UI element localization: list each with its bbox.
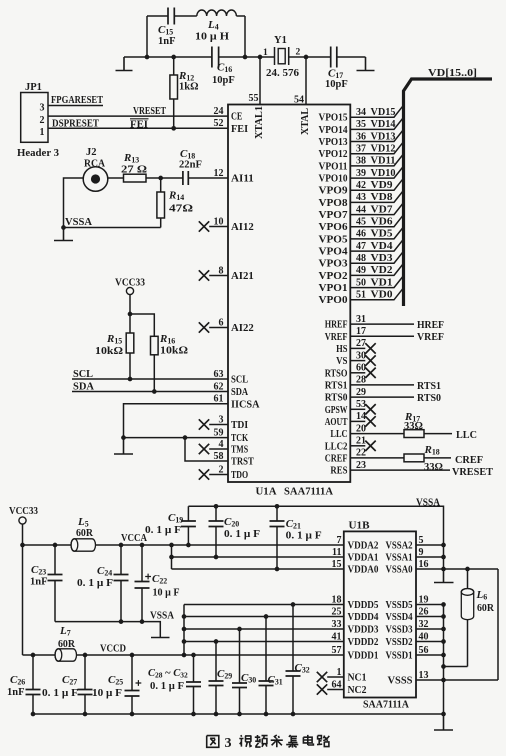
svg-text:32: 32 bbox=[419, 619, 429, 630]
wire VDDD3 (pin 33 rail) bbox=[184, 628, 344, 630]
wire VSSD5 (pin19) bbox=[416, 604, 444, 606]
svg-text:VSSA2: VSSA2 bbox=[386, 541, 413, 552]
svg-text:24: 24 bbox=[214, 106, 224, 117]
capacitor C17 bbox=[325, 47, 348, 91]
svg-text:3: 3 bbox=[40, 103, 45, 114]
junction (C32 bottom on gnd rail) bbox=[291, 712, 296, 717]
svg-text:10pF: 10pF bbox=[325, 79, 348, 90]
wire HREF bbox=[350, 320, 444, 331]
U1B right pin numbers bbox=[419, 535, 429, 681]
svg-text:VRESET: VRESET bbox=[452, 466, 494, 478]
svg-text:VSSA0: VSSA0 bbox=[386, 565, 413, 576]
svg-text:1nF: 1nF bbox=[158, 36, 176, 47]
svg-text:7: 7 bbox=[337, 535, 342, 546]
svg-text:VCCA: VCCA bbox=[121, 533, 147, 544]
svg-text:RTS1: RTS1 bbox=[417, 381, 441, 392]
svg-text:VDDD3: VDDD3 bbox=[348, 625, 379, 636]
IC U1A SAA7111A (body) bbox=[228, 105, 350, 483]
svg-text:10kΩ: 10kΩ bbox=[160, 346, 188, 357]
connector JP1 bbox=[17, 82, 59, 159]
wire VPO15-VPO0 stubs to VD bus bbox=[350, 105, 403, 300]
wire (L6 bottom to VSS trunk) bbox=[444, 666, 468, 668]
svg-text:VPO15: VPO15 bbox=[319, 113, 348, 124]
junction (C21 top) bbox=[275, 504, 280, 509]
junction (C31 top) bbox=[264, 614, 269, 619]
junction (C27 tap) bbox=[83, 653, 88, 658]
junction (C25 bottom on gnd rail) bbox=[130, 712, 135, 717]
svg-text:TCK: TCK bbox=[231, 433, 249, 444]
svg-text:55: 55 bbox=[249, 93, 259, 104]
svg-text:VPO5: VPO5 bbox=[319, 234, 348, 245]
wire VDDD4 (pin 25 rail) bbox=[184, 616, 344, 618]
wire (VDDD trunk vertical) bbox=[183, 605, 185, 656]
svg-text:VPO7: VPO7 bbox=[319, 210, 348, 221]
svg-text:VPO4: VPO4 bbox=[319, 247, 349, 258]
wire (right edge vertical VSSA0-VSSS) bbox=[497, 569, 499, 680]
svg-text:53: 53 bbox=[356, 399, 366, 410]
connector J2 RCA bbox=[83, 147, 108, 191]
svg-text:VPO3: VPO3 bbox=[319, 259, 348, 270]
svg-text:FPGARESET: FPGARESET bbox=[51, 95, 103, 106]
junction (R13/C18/R14 node) bbox=[158, 176, 163, 181]
svg-text:58: 58 bbox=[214, 451, 224, 462]
ground (digital, bottom right) bbox=[434, 714, 453, 730]
svg-text:VSSD4: VSSD4 bbox=[386, 612, 414, 623]
junction (C29 top) bbox=[214, 639, 219, 644]
svg-text:13: 13 bbox=[419, 670, 429, 681]
svg-text:64: 64 bbox=[332, 679, 342, 690]
junction (C24 tap) bbox=[119, 543, 124, 548]
wire (pin 54 XTAL stub) bbox=[305, 57, 307, 105]
wire TRST (branch to pin58) bbox=[185, 438, 228, 461]
junction (R16 on SDA) bbox=[152, 389, 157, 394]
svg-text:3: 3 bbox=[219, 414, 224, 425]
capacitor C29 bbox=[209, 642, 233, 715]
svg-text:51: 51 bbox=[356, 290, 366, 301]
svg-text:JP1: JP1 bbox=[25, 82, 42, 93]
svg-text:RES: RES bbox=[330, 466, 347, 477]
U1B left pin numbers bbox=[332, 535, 342, 691]
svg-text:29: 29 bbox=[356, 387, 366, 398]
svg-text:Header 3: Header 3 bbox=[17, 147, 59, 159]
crystal Y1 bbox=[263, 35, 301, 79]
svg-text:37: 37 bbox=[356, 144, 366, 155]
wire (VCC33 to L5) bbox=[23, 544, 72, 546]
wire (C15/L4 branch verticals) bbox=[147, 16, 245, 57]
svg-text:0. 1 μ F: 0. 1 μ F bbox=[42, 688, 78, 699]
svg-text:C28 ~ C32: C28 ~ C32 bbox=[148, 668, 188, 680]
svg-text:28: 28 bbox=[356, 375, 366, 386]
capacitor C19 bbox=[145, 506, 196, 545]
junction (C32 top) bbox=[291, 602, 296, 607]
svg-text:VDDA0: VDDA0 bbox=[348, 565, 379, 576]
svg-text:48: 48 bbox=[356, 253, 366, 264]
junction (TCK/TRST branch) bbox=[183, 435, 188, 440]
svg-text:47Ω: 47Ω bbox=[169, 204, 193, 215]
svg-text:CREF: CREF bbox=[325, 454, 348, 465]
svg-text:9: 9 bbox=[419, 547, 424, 558]
svg-text:NC2: NC2 bbox=[348, 685, 367, 696]
svg-text:22: 22 bbox=[356, 448, 366, 459]
junction (C20 top) bbox=[214, 504, 219, 509]
svg-text:10pF: 10pF bbox=[212, 75, 235, 86]
svg-text:2: 2 bbox=[40, 115, 45, 126]
svg-text:U1B: U1B bbox=[349, 520, 371, 532]
node VD[15..0] bus bbox=[404, 67, 493, 306]
wire VSSD1 (pin56) bbox=[416, 654, 444, 656]
svg-text:RTSO: RTSO bbox=[325, 368, 348, 379]
svg-text:VDDA1: VDDA1 bbox=[348, 553, 379, 564]
svg-text:VD11: VD11 bbox=[371, 156, 396, 167]
junction (VDDA tie top) bbox=[169, 543, 174, 548]
junction (trunk at VSSA2) bbox=[441, 543, 446, 548]
resistor R18 (CREF series) bbox=[350, 444, 483, 473]
resistor R13 bbox=[121, 152, 161, 182]
svg-text:35: 35 bbox=[356, 119, 366, 130]
wire DSPRESET/FEI (JP1 pin1 to U1A FEI pin52) bbox=[48, 119, 228, 131]
svg-text:42: 42 bbox=[356, 180, 366, 191]
svg-text:56: 56 bbox=[419, 645, 429, 656]
junction (IICSA/TCK/gnd) bbox=[121, 435, 126, 440]
junction (tie at VDDA1) bbox=[169, 555, 174, 560]
inductor L4 bbox=[195, 10, 236, 43]
svg-text:60: 60 bbox=[356, 363, 366, 374]
inductor L5 (ferrite bead 60R) bbox=[71, 516, 96, 551]
U1A XTAL pin name (vertical) bbox=[300, 108, 311, 135]
svg-text:43: 43 bbox=[356, 192, 366, 203]
svg-text:VDDD1: VDDD1 bbox=[348, 651, 379, 662]
junction (trunk at VDDD2 rail) bbox=[182, 639, 187, 644]
svg-text:1: 1 bbox=[40, 127, 45, 138]
svg-text:VSSA1: VSSA1 bbox=[386, 553, 413, 564]
svg-text:0. 1 μ F: 0. 1 μ F bbox=[286, 531, 322, 542]
pin NC1 (no-connect) bbox=[317, 672, 344, 682]
svg-text:TDI: TDI bbox=[231, 420, 248, 431]
resistor R15 bbox=[95, 314, 134, 379]
svg-text:1nF: 1nF bbox=[7, 687, 25, 698]
capacitor C25 (polarized) bbox=[92, 655, 141, 714]
svg-text:VDDD2: VDDD2 bbox=[348, 637, 379, 648]
resistor R16 bbox=[130, 314, 188, 392]
junction (branch-right on main wire) bbox=[243, 55, 248, 60]
svg-text:VDDD4: VDDD4 bbox=[348, 612, 380, 623]
svg-text:62: 62 bbox=[214, 381, 224, 392]
junction (C23 tap) bbox=[53, 543, 58, 548]
wire VCCA (L5 to U1A... U1B VDDA2 pin7) bbox=[96, 533, 345, 545]
wire RTS0 bbox=[350, 393, 441, 404]
svg-text:6: 6 bbox=[219, 317, 224, 328]
svg-text:CE: CE bbox=[231, 112, 242, 123]
wire IICSA (pin61 to ground bracket) bbox=[124, 404, 229, 438]
svg-text:VPO1: VPO1 bbox=[319, 283, 348, 294]
svg-text:VCCD: VCCD bbox=[100, 644, 126, 655]
svg-text:VD3: VD3 bbox=[371, 253, 393, 264]
svg-text:0. 1 μ F: 0. 1 μ F bbox=[150, 681, 184, 692]
wire VSSA0 (pin16 to right edge) bbox=[416, 568, 498, 570]
svg-text:VREF: VREF bbox=[417, 332, 444, 343]
svg-text:44: 44 bbox=[356, 204, 366, 215]
svg-text:38: 38 bbox=[356, 156, 366, 167]
junction (gnd rail at VSS trunk) bbox=[441, 712, 446, 717]
svg-text:33: 33 bbox=[332, 619, 342, 630]
svg-text:Y1: Y1 bbox=[274, 35, 287, 46]
svg-text:LLC2: LLC2 bbox=[325, 441, 348, 452]
junction (C27 bottom on gnd rail) bbox=[83, 712, 88, 717]
svg-text:25: 25 bbox=[332, 606, 342, 617]
svg-text:SDA: SDA bbox=[231, 387, 248, 398]
junction (C20 bottom) bbox=[214, 555, 219, 560]
wire (main top net, y=57) bbox=[124, 56, 366, 58]
svg-text:VSSD2: VSSD2 bbox=[386, 637, 413, 648]
svg-text:23: 23 bbox=[356, 460, 366, 471]
svg-text:VPO12: VPO12 bbox=[319, 149, 348, 160]
svg-text:TMS: TMS bbox=[231, 445, 248, 456]
junction (R15 on SCL) bbox=[128, 377, 133, 382]
svg-text:VSSD3: VSSD3 bbox=[386, 625, 413, 636]
svg-text:AI11: AI11 bbox=[231, 174, 254, 185]
svg-text:VD7: VD7 bbox=[371, 204, 393, 215]
junction (trunk at VSSA0) bbox=[441, 567, 446, 572]
U1B designator label bbox=[349, 520, 371, 532]
svg-text:VD12: VD12 bbox=[371, 144, 396, 155]
wire RTS1 bbox=[350, 381, 441, 392]
wire SDA bbox=[72, 382, 228, 393]
pin TDI (no-connect) bbox=[199, 419, 228, 429]
U1A left pin names bbox=[231, 112, 260, 481]
junction (trunk at VSSD1) bbox=[441, 653, 446, 658]
junction (branch-left on main wire) bbox=[145, 55, 150, 60]
wire (RCA to R13) bbox=[108, 177, 124, 179]
svg-text:60R: 60R bbox=[76, 528, 93, 539]
svg-text:VPO10: VPO10 bbox=[319, 174, 348, 185]
svg-text:VPO2: VPO2 bbox=[319, 271, 348, 282]
svg-text:16: 16 bbox=[419, 559, 429, 570]
capacitor C16 bbox=[212, 47, 235, 87]
svg-text:VPO6: VPO6 bbox=[319, 222, 348, 233]
svg-text:VS: VS bbox=[336, 356, 348, 367]
junction (L6 top tap) bbox=[465, 567, 470, 572]
svg-text:IICSA: IICSA bbox=[231, 399, 260, 410]
svg-text:36: 36 bbox=[356, 131, 366, 142]
capacitor C30 bbox=[232, 629, 256, 714]
svg-text:FEI: FEI bbox=[130, 119, 148, 130]
resistor R12 bbox=[170, 57, 199, 128]
svg-text:46: 46 bbox=[356, 229, 366, 240]
svg-text:50: 50 bbox=[356, 277, 366, 288]
svg-text:3: 3 bbox=[225, 736, 232, 751]
svg-text:DSPRESET: DSPRESET bbox=[52, 119, 99, 130]
U1B left pin names bbox=[348, 541, 380, 697]
ground (JTAG/IICSA) bbox=[114, 438, 133, 454]
svg-text:45: 45 bbox=[356, 217, 366, 228]
svg-text:SDA: SDA bbox=[73, 382, 94, 393]
svg-text:26: 26 bbox=[419, 606, 429, 617]
svg-text:VSSA: VSSA bbox=[416, 498, 440, 509]
svg-text:40: 40 bbox=[419, 631, 429, 642]
svg-text:63: 63 bbox=[214, 369, 224, 380]
U1A VPO pin names and VD net labels bbox=[319, 107, 397, 306]
resistor R14 bbox=[157, 178, 193, 228]
svg-text:11: 11 bbox=[332, 547, 341, 558]
inductor L6 (ferrite bead 60R) bbox=[461, 569, 494, 667]
junction (C29 bottom on gnd rail) bbox=[214, 712, 219, 717]
U1A right pin names bbox=[325, 320, 348, 477]
svg-text:SAA7111A: SAA7111A bbox=[363, 699, 409, 711]
svg-text:14: 14 bbox=[356, 411, 366, 422]
svg-text:60R: 60R bbox=[477, 603, 494, 614]
svg-text:VD6: VD6 bbox=[371, 217, 393, 228]
wire TCK (ground bracket to pin59) bbox=[124, 437, 229, 439]
pin VS (no-connect) bbox=[350, 355, 375, 365]
capacitor C32 bbox=[286, 605, 310, 715]
svg-text:VPO13: VPO13 bbox=[319, 137, 348, 148]
capacitor C27 bbox=[42, 655, 93, 714]
svg-text:RTS0: RTS0 bbox=[325, 393, 348, 404]
U1B part number label bbox=[363, 699, 409, 711]
svg-text:22nF: 22nF bbox=[179, 160, 202, 171]
capacitor C21 bbox=[270, 506, 322, 569]
junction (trunk at VSSD3) bbox=[441, 627, 446, 632]
svg-text:12: 12 bbox=[214, 168, 224, 179]
svg-text:VPO14: VPO14 bbox=[319, 125, 349, 136]
wire (VSSA top rail) bbox=[188, 506, 443, 569]
svg-text:10kΩ: 10kΩ bbox=[95, 346, 123, 357]
svg-text:TRST: TRST bbox=[231, 457, 254, 468]
svg-text:49: 49 bbox=[356, 265, 366, 276]
svg-text:20: 20 bbox=[356, 423, 366, 434]
svg-text:61: 61 bbox=[214, 394, 224, 405]
svg-text:VPO8: VPO8 bbox=[319, 198, 348, 209]
svg-text:VRESET: VRESET bbox=[133, 106, 166, 117]
wire VRESET (RES pin23) bbox=[350, 466, 493, 478]
junction (VDDD trunk bottom) bbox=[182, 653, 187, 658]
junction (C30 top) bbox=[237, 627, 242, 632]
svg-text:VD15: VD15 bbox=[371, 107, 396, 118]
svg-text:60R: 60R bbox=[58, 639, 75, 650]
pin TMS (no-connect) bbox=[199, 444, 228, 454]
svg-text:10: 10 bbox=[214, 216, 224, 227]
wire VDDA0 (to pin 15) bbox=[172, 568, 345, 570]
svg-text:VSSA: VSSA bbox=[150, 611, 174, 622]
ground (J2 shield) bbox=[54, 228, 73, 241]
junction (trunk at VSSA1) bbox=[441, 555, 446, 560]
junction (trunk at VDDD3 rail) bbox=[182, 627, 187, 632]
wire (VDDA tie vertical) bbox=[171, 545, 173, 569]
capacitor C28 (group C28~C32) bbox=[148, 655, 201, 714]
junction (VSSA corner) bbox=[61, 225, 66, 230]
wire (digital gnd bottom rail) bbox=[33, 713, 444, 715]
svg-text:SAA7111A: SAA7111A bbox=[284, 486, 333, 498]
svg-text:NC1: NC1 bbox=[348, 673, 367, 684]
svg-text:FEI: FEI bbox=[231, 124, 248, 135]
pin TDO (no-connect) bbox=[199, 469, 228, 479]
svg-text:VD13: VD13 bbox=[371, 131, 396, 142]
svg-text:57: 57 bbox=[332, 645, 342, 656]
svg-text:TDO: TDO bbox=[231, 470, 248, 481]
svg-text:10 μ F: 10 μ F bbox=[153, 588, 180, 599]
svg-text:XTAL1: XTAL1 bbox=[254, 106, 265, 139]
svg-text:AI12: AI12 bbox=[231, 222, 254, 233]
wire VRESET (JP1 pin2 to U1A CE pin24) bbox=[48, 106, 228, 117]
junction (C28 bottom on gnd rail) bbox=[191, 712, 196, 717]
junction (trunk at VDDD4 rail) bbox=[182, 614, 187, 619]
wire VSSS (pin13 to right edge) bbox=[416, 679, 498, 681]
junction (trunk at VSSD5) bbox=[441, 602, 446, 607]
junction (C25 tap) bbox=[130, 653, 135, 658]
svg-text:15: 15 bbox=[332, 559, 342, 570]
wire (pin 55 XTAL1 stub) bbox=[259, 57, 261, 105]
power VCC33 (bottom) bbox=[9, 506, 38, 655]
capacitor C20 bbox=[209, 506, 261, 557]
pin AI21 (no-connect) bbox=[199, 270, 228, 280]
junction (C19 bottom) bbox=[186, 543, 191, 548]
svg-text:24. 576: 24. 576 bbox=[266, 68, 299, 79]
svg-text:59: 59 bbox=[214, 427, 224, 438]
svg-text:VD0: VD0 bbox=[371, 290, 393, 301]
svg-text:RCA: RCA bbox=[84, 159, 105, 170]
svg-text:VPO11: VPO11 bbox=[319, 161, 348, 172]
svg-text:34: 34 bbox=[356, 107, 366, 118]
wire FPGARESET (JP1 pin3 stub) bbox=[48, 95, 103, 106]
pin AI22 (no-connect) bbox=[199, 322, 228, 332]
svg-text:47: 47 bbox=[356, 241, 366, 252]
svg-text:VSSA: VSSA bbox=[65, 217, 92, 228]
pin AI12 (no-connect) bbox=[199, 221, 228, 231]
wire VSSA (RCA shield to R14 bottom) bbox=[64, 178, 161, 228]
junction (XTAL1 node) bbox=[258, 55, 263, 60]
svg-text:1kΩ: 1kΩ bbox=[179, 82, 199, 93]
svg-text:0. 1 μ F: 0. 1 μ F bbox=[224, 529, 260, 540]
wire VCCD (L7 to U1B VDDD1 pin57) bbox=[77, 644, 345, 656]
wire VDDA1 (to pin 11) bbox=[172, 556, 345, 558]
svg-text:XTAL: XTAL bbox=[300, 108, 311, 135]
resistor R17 (LLC series) bbox=[350, 411, 477, 441]
svg-text:2: 2 bbox=[219, 464, 224, 475]
wire VSSA2 (pin5 to trunk) bbox=[416, 544, 444, 546]
svg-text:VPO9: VPO9 bbox=[319, 186, 348, 197]
svg-text:AOUT: AOUT bbox=[325, 417, 348, 428]
capacitor C24 bbox=[77, 545, 129, 622]
svg-text:18: 18 bbox=[332, 594, 342, 605]
svg-text:VSSD5: VSSD5 bbox=[386, 600, 413, 611]
junction (C22 tap) bbox=[140, 543, 145, 548]
svg-text:VD2: VD2 bbox=[371, 265, 393, 276]
wire VDDD5 (pin 18 rail) bbox=[184, 604, 344, 606]
svg-text:VD10: VD10 bbox=[371, 168, 396, 179]
power VCC33 (I2C pullups) bbox=[115, 278, 145, 315]
pin NC2 (no-connect) bbox=[317, 684, 344, 694]
pin 55 label bbox=[249, 93, 259, 104]
svg-text:VSSS: VSSS bbox=[388, 676, 413, 687]
svg-text:VSSD1: VSSD1 bbox=[386, 651, 413, 662]
capacitor C23 bbox=[30, 545, 63, 622]
svg-text:VPO0: VPO0 bbox=[319, 295, 348, 306]
junction (C26 bottom on gnd rail) bbox=[31, 712, 36, 717]
svg-text:17: 17 bbox=[356, 326, 366, 337]
junction (trunk at L6 branch) bbox=[441, 664, 446, 669]
svg-text:AI21: AI21 bbox=[231, 271, 254, 282]
svg-text:27: 27 bbox=[356, 338, 366, 349]
junction (C22 on VSSA wire) bbox=[140, 619, 145, 624]
svg-text:19: 19 bbox=[419, 594, 429, 605]
caption 图3 视频采集电路 bbox=[207, 735, 330, 751]
junction (C31 bottom on gnd rail) bbox=[264, 712, 269, 717]
wire (VCC33 trunk corner to L7) bbox=[23, 654, 56, 656]
svg-text:39: 39 bbox=[356, 168, 366, 179]
svg-text:2: 2 bbox=[296, 48, 301, 58]
wire VSSD3 (pin32) bbox=[416, 628, 444, 630]
wire (VSS trunk vertical) bbox=[443, 605, 445, 715]
